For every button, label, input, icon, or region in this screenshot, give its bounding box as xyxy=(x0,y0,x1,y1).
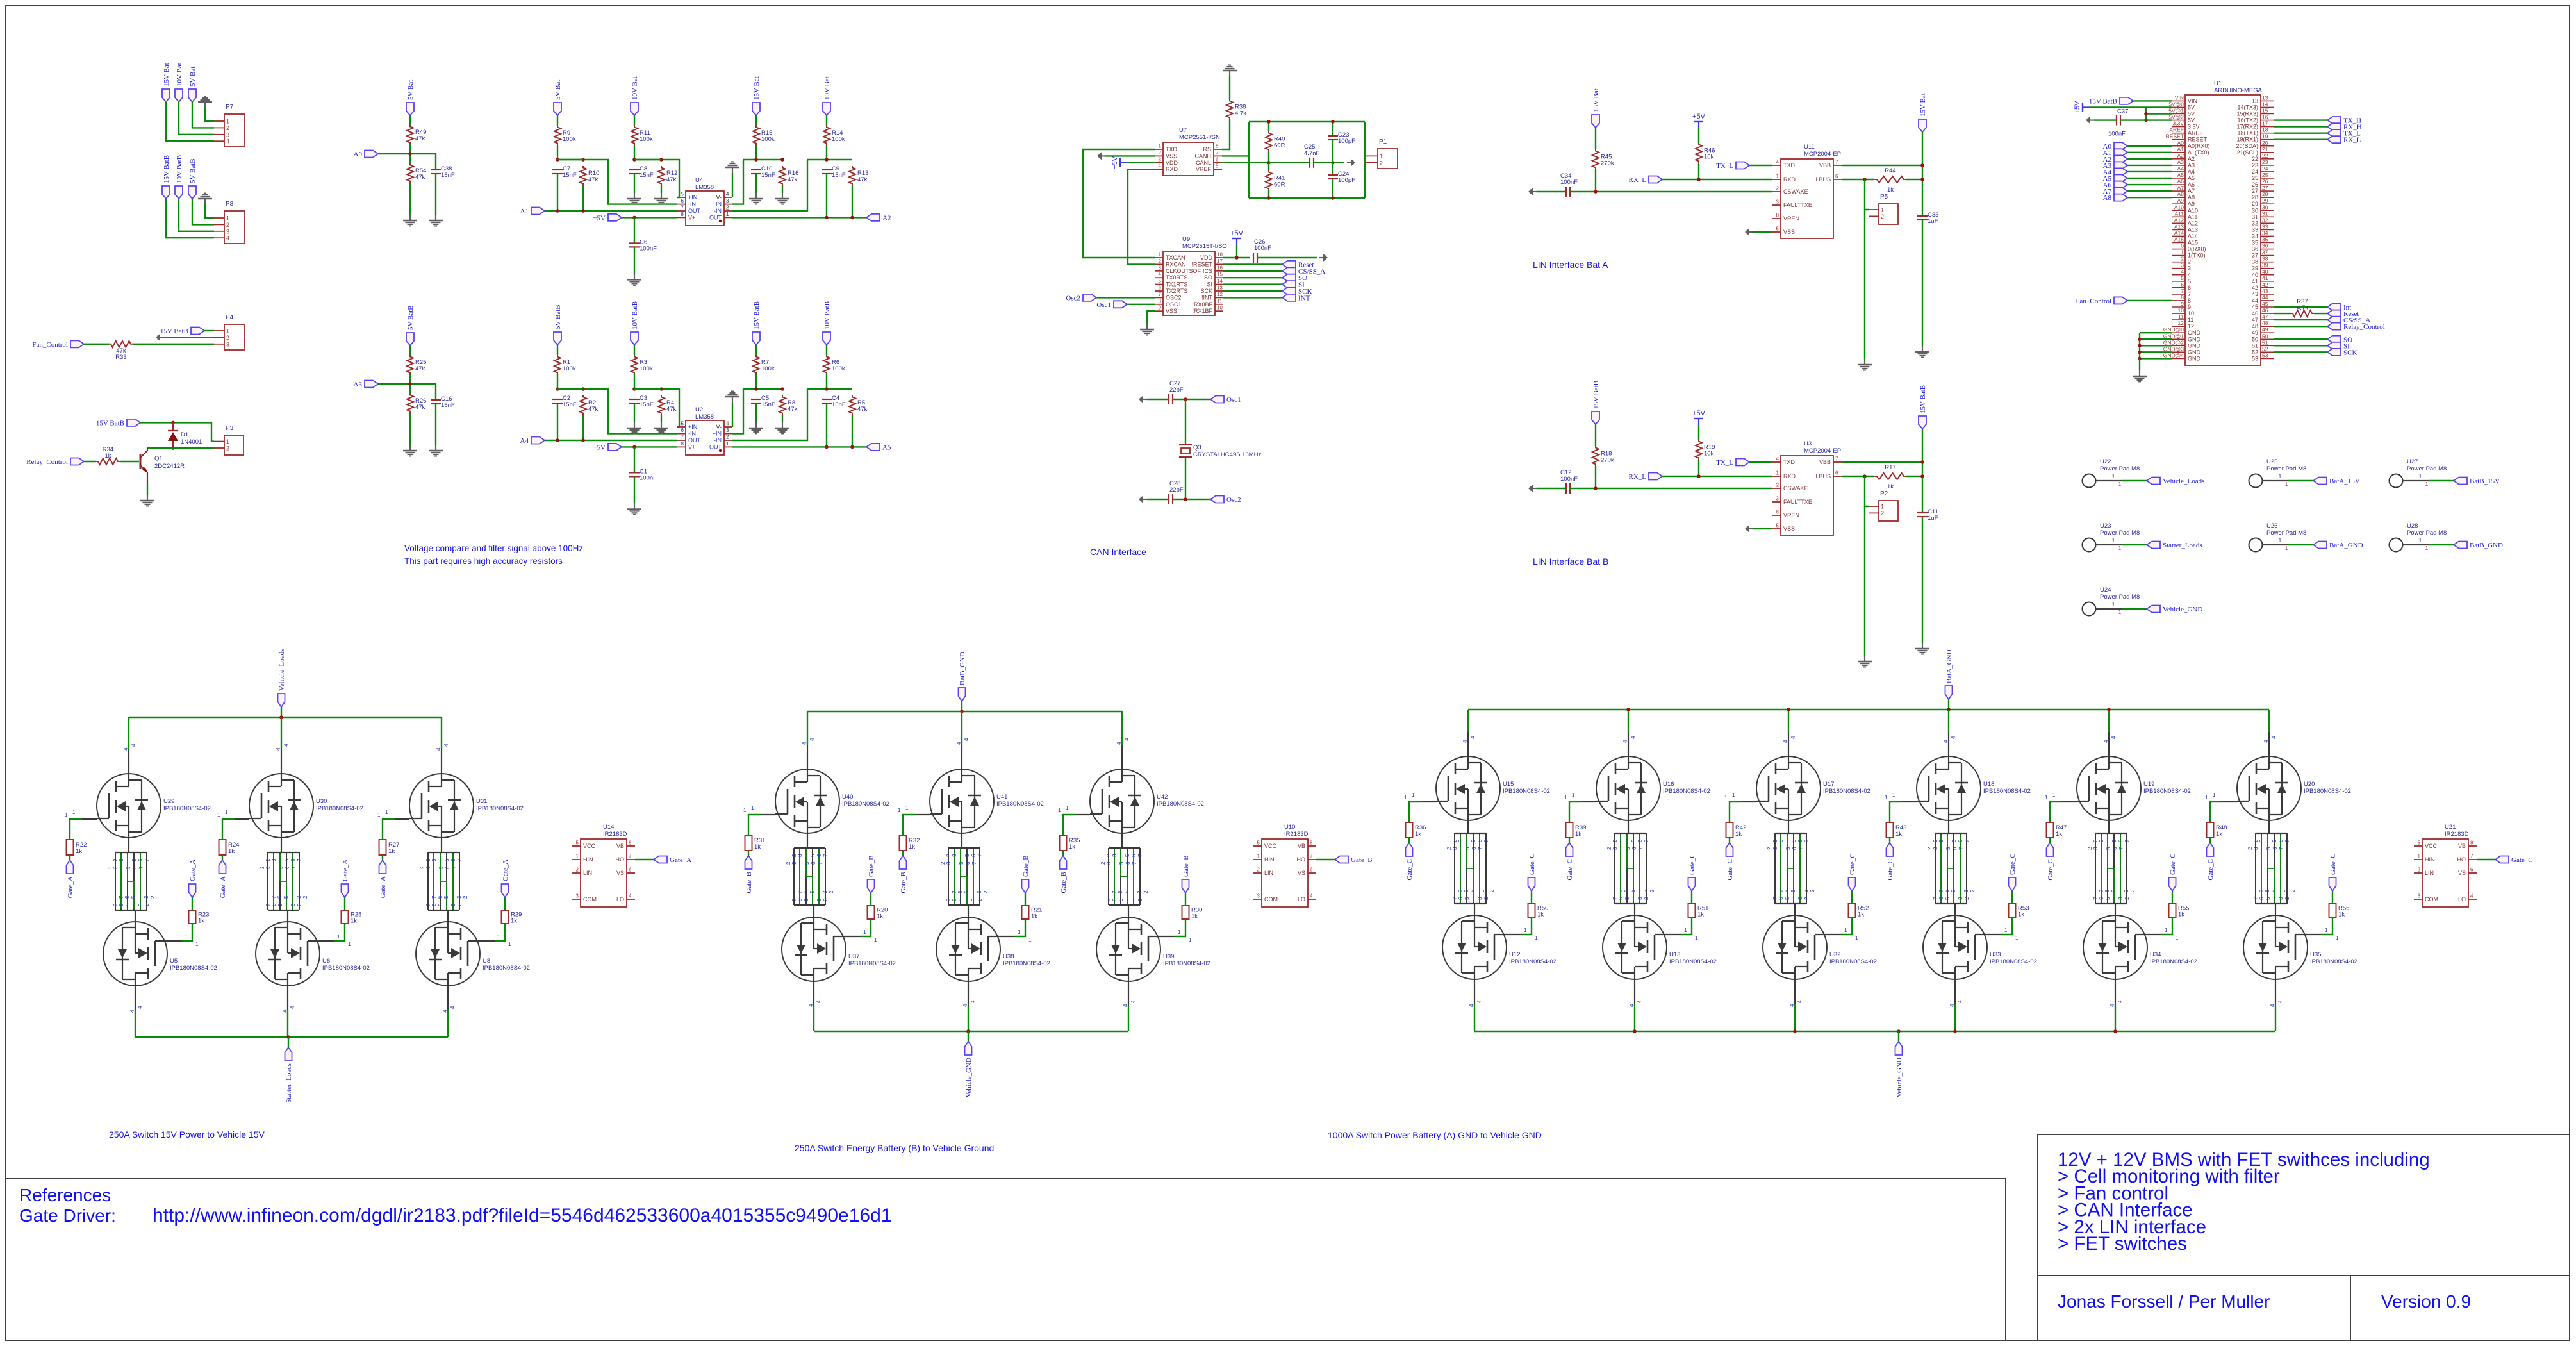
svg-text:A5: A5 xyxy=(882,444,891,451)
IC U11 MCP2004-EP xyxy=(1781,159,1833,238)
svg-text:1k: 1k xyxy=(2056,831,2062,838)
svg-text:6: 6 xyxy=(1159,285,1162,291)
wire xyxy=(1906,476,1922,477)
svg-text:6: 6 xyxy=(1112,898,1118,901)
resistor R44 xyxy=(1874,176,1906,183)
power pad U22 xyxy=(2083,474,2096,488)
svg-text:MCP2515T-I/SO: MCP2515T-I/SO xyxy=(1182,243,1227,250)
svg-text:4: 4 xyxy=(956,742,962,745)
node BatA_15V xyxy=(2313,478,2327,485)
wire HO xyxy=(1316,859,1335,860)
svg-text:8: 8 xyxy=(2181,294,2184,301)
svg-text:1: 1 xyxy=(1776,174,1779,179)
svg-text:33: 33 xyxy=(2262,223,2268,229)
svg-text:Gate_C: Gate_C xyxy=(1566,859,1574,881)
svg-text:+IN: +IN xyxy=(713,201,722,208)
svg-text:7: 7 xyxy=(2124,839,2130,842)
svg-text:MCP2004-EP: MCP2004-EP xyxy=(1804,151,1841,158)
wire xyxy=(281,707,282,717)
svg-text:7: 7 xyxy=(1933,897,1938,900)
wire xyxy=(1332,122,1333,136)
wire xyxy=(782,185,783,193)
svg-text:Power Pad M8: Power Pad M8 xyxy=(2100,529,2140,536)
svg-text:A5: A5 xyxy=(2188,175,2195,181)
svg-text:3: 3 xyxy=(1618,839,1624,842)
svg-text:9: 9 xyxy=(2188,304,2191,310)
svg-text:1: 1 xyxy=(1881,207,1884,213)
svg-text:1: 1 xyxy=(726,212,729,217)
svg-text:5: 5 xyxy=(1951,889,1956,892)
node SCK xyxy=(1282,288,1296,295)
svg-text:A13: A13 xyxy=(2188,226,2198,233)
svg-text:2: 2 xyxy=(2290,889,2296,892)
node Reset xyxy=(2327,310,2341,317)
ground xyxy=(661,193,662,199)
svg-text:A9: A9 xyxy=(2177,197,2184,204)
svg-text:GND: GND xyxy=(2188,349,2201,355)
svg-text:15nF: 15nF xyxy=(832,401,846,408)
resistor R39 xyxy=(1566,822,1573,838)
svg-text:IPB180N08S4-02: IPB180N08S4-02 xyxy=(1983,788,2031,795)
svg-text:45: 45 xyxy=(2252,304,2258,310)
svg-text:250A Switch Energy Battery (B): 250A Switch Energy Battery (B) to Vehicl… xyxy=(795,1143,994,1153)
svg-text:2: 2 xyxy=(2418,867,2421,873)
svg-text:U14: U14 xyxy=(603,824,614,831)
chassis arrow U7-VSS xyxy=(1101,155,1105,156)
svg-text:LIN Interface Bat B: LIN Interface Bat B xyxy=(1533,556,1608,567)
svg-text:5: 5 xyxy=(1125,854,1130,857)
svg-text:1k: 1k xyxy=(909,843,915,851)
svg-text:13: 13 xyxy=(2252,97,2258,104)
svg-text:A10: A10 xyxy=(2174,204,2184,210)
FET bank B (250A BatB): bottom rail xyxy=(814,1031,1128,1032)
references box xyxy=(6,1179,2006,1340)
svg-text:7: 7 xyxy=(1958,847,1964,850)
svg-text:5: 5 xyxy=(1159,278,1162,284)
node Gate_A xyxy=(67,860,74,874)
wire xyxy=(557,388,583,390)
wire xyxy=(2314,313,2327,314)
svg-text:2: 2 xyxy=(2087,847,2093,850)
svg-text:1: 1 xyxy=(2118,545,2122,551)
svg-text:Q1: Q1 xyxy=(154,455,163,462)
svg-text:5: 5 xyxy=(681,192,684,197)
svg-text:35: 35 xyxy=(2252,240,2258,246)
svg-text:1k: 1k xyxy=(1697,911,1704,918)
node SI xyxy=(1282,281,1296,288)
wire xyxy=(826,115,827,126)
wire xyxy=(2122,480,2147,481)
svg-text:A7: A7 xyxy=(2188,188,2195,194)
svg-text:43: 43 xyxy=(2262,288,2268,294)
ground xyxy=(435,215,436,220)
svg-text:5: 5 xyxy=(284,858,290,861)
svg-text:U40: U40 xyxy=(842,793,853,801)
parallel source/drain pins xyxy=(2095,833,2127,834)
node BatB_GND xyxy=(2454,542,2467,549)
op-amp U4 LM358 xyxy=(686,191,724,226)
capacitor C28 xyxy=(1168,494,1169,504)
svg-text:A7: A7 xyxy=(2177,185,2184,191)
svg-text:P4: P4 xyxy=(226,314,234,321)
svg-text:5: 5 xyxy=(277,903,283,906)
node Gate_B xyxy=(745,856,752,869)
node Gate_C xyxy=(2169,877,2176,891)
wire xyxy=(743,388,782,390)
svg-text:TX0RTS: TX0RTS xyxy=(1166,274,1187,281)
svg-text:5: 5 xyxy=(804,861,810,865)
capacitor C9 xyxy=(822,169,832,170)
svg-text:100pF: 100pF xyxy=(1338,138,1355,145)
parallel source/drain pins xyxy=(115,852,147,853)
svg-text:5: 5 xyxy=(959,861,964,865)
wire gate xyxy=(495,924,505,941)
svg-text:3: 3 xyxy=(977,890,982,893)
svg-text:3: 3 xyxy=(2181,262,2184,269)
resistor R1 xyxy=(554,355,561,374)
svg-text:6: 6 xyxy=(1310,867,1313,873)
resistor R16 xyxy=(779,166,786,185)
svg-text:RXD: RXD xyxy=(1783,473,1796,479)
svg-text:5: 5 xyxy=(810,854,816,857)
svg-text:A1: A1 xyxy=(520,208,529,215)
svg-text:6: 6 xyxy=(437,895,443,899)
ground U9 xyxy=(1146,324,1148,329)
capacitor C8 xyxy=(629,169,640,170)
resistor R28 xyxy=(342,910,349,924)
svg-text:A0: A0 xyxy=(2177,140,2184,146)
resistor R48 xyxy=(2207,822,2214,838)
svg-text:References: References xyxy=(19,1185,111,1205)
svg-text:1: 1 xyxy=(2118,610,2122,615)
capacitor C2 xyxy=(552,399,563,400)
wire LBUS xyxy=(1842,476,1874,477)
svg-text:Gate_C: Gate_C xyxy=(1849,853,1856,875)
svg-text:1uF: 1uF xyxy=(1928,515,1938,522)
wire xyxy=(732,389,807,440)
svg-text:MCP2551-I/SN: MCP2551-I/SN xyxy=(1179,134,1220,141)
svg-text:6: 6 xyxy=(1792,847,1797,850)
svg-text:Gate_C: Gate_C xyxy=(2169,853,2177,875)
capacitor C1 xyxy=(629,472,640,473)
svg-text:4: 4 xyxy=(1776,456,1779,462)
svg-text:CSWAKE: CSWAKE xyxy=(1783,485,1808,492)
svg-text:7: 7 xyxy=(681,205,684,211)
wire xyxy=(2127,158,2172,160)
svg-text:HO: HO xyxy=(616,856,625,863)
wire VSS xyxy=(1753,231,1772,233)
svg-text:Vehicle_GND: Vehicle_GND xyxy=(2163,606,2202,613)
svg-text:IPB180N08S4-02: IPB180N08S4-02 xyxy=(1163,960,1210,967)
svg-text:1k: 1k xyxy=(1858,911,1864,918)
wire VBB xyxy=(1842,461,1922,463)
svg-text:7: 7 xyxy=(1106,898,1112,901)
svg-text:3: 3 xyxy=(1137,890,1143,893)
svg-text:53: 53 xyxy=(2252,355,2258,361)
svg-text:1: 1 xyxy=(2181,249,2184,256)
node Gate_B xyxy=(1022,879,1029,893)
transistor U13 (lower FET) xyxy=(1603,915,1667,979)
node Osc2 xyxy=(1083,294,1096,301)
wire gate xyxy=(2322,917,2332,935)
wire xyxy=(2127,178,2172,179)
wire gate xyxy=(70,819,82,840)
svg-text:Version 0.9: Version 0.9 xyxy=(2381,1292,2471,1311)
svg-text:INT: INT xyxy=(1298,294,1310,302)
svg-text:1: 1 xyxy=(1724,795,1728,801)
svg-text:1k: 1k xyxy=(1031,913,1037,920)
svg-text:1: 1 xyxy=(226,438,229,445)
svg-text:BatB_15V: BatB_15V xyxy=(2470,478,2500,485)
svg-text:5: 5 xyxy=(438,903,443,906)
svg-text:Power Pad M8: Power Pad M8 xyxy=(2100,465,2140,472)
svg-text:V+: V+ xyxy=(688,444,695,450)
wire source xyxy=(287,986,288,1010)
svg-text:34: 34 xyxy=(2252,233,2258,239)
svg-text:1: 1 xyxy=(1524,927,1527,933)
wire xyxy=(661,185,662,193)
capacitor C12 xyxy=(1565,483,1567,494)
svg-text:TX2RTS: TX2RTS xyxy=(1166,288,1187,294)
wire gate xyxy=(2162,917,2172,935)
wire xyxy=(755,115,757,126)
svg-text:1N4001: 1N4001 xyxy=(181,438,202,445)
diode D1 1N4001 xyxy=(172,422,174,431)
resistor R25 xyxy=(407,355,413,374)
svg-text:1: 1 xyxy=(195,942,199,947)
svg-text:7: 7 xyxy=(1835,456,1838,462)
wire xyxy=(2332,891,2333,904)
svg-text:15V BatB: 15V BatB xyxy=(96,419,124,427)
svg-text:13: 13 xyxy=(2262,94,2268,101)
svg-text:2: 2 xyxy=(2130,889,2136,892)
svg-text:Gate_B: Gate_B xyxy=(900,872,907,893)
svg-text:BatB_GND: BatB_GND xyxy=(2470,542,2503,549)
svg-text:41: 41 xyxy=(2252,278,2258,285)
svg-text:7: 7 xyxy=(265,903,271,906)
svg-text:1: 1 xyxy=(1178,929,1181,935)
wire drain xyxy=(1467,710,1469,732)
node A5 xyxy=(2114,175,2127,182)
svg-text:7: 7 xyxy=(1835,160,1838,165)
parallel source/drain pins xyxy=(1775,833,1806,834)
svg-text:2: 2 xyxy=(1452,839,1458,842)
svg-text:4: 4 xyxy=(1476,1000,1482,1003)
wire xyxy=(2145,107,2147,120)
svg-text:4: 4 xyxy=(1159,163,1162,169)
svg-text:10V Bat: 10V Bat xyxy=(631,76,639,100)
node Vehicle_GND xyxy=(1895,1042,1903,1055)
wire xyxy=(222,855,223,860)
ground C33 xyxy=(1922,346,1923,352)
capacitor C4 xyxy=(822,399,832,400)
wire xyxy=(755,145,757,160)
svg-text:27: 27 xyxy=(2252,188,2258,194)
svg-text:Osc2: Osc2 xyxy=(1226,496,1241,504)
wire xyxy=(1662,179,1772,180)
svg-text:RX_L: RX_L xyxy=(2343,137,2361,144)
wire drain xyxy=(2108,710,2110,732)
wire xyxy=(1864,210,1865,359)
svg-text:SO: SO xyxy=(1204,274,1212,281)
svg-text:U16: U16 xyxy=(1663,781,1674,788)
svg-text:22pF: 22pF xyxy=(1169,486,1184,494)
ground xyxy=(634,274,635,279)
svg-text:4: 4 xyxy=(123,747,129,751)
wire xyxy=(2274,138,2327,140)
svg-text:4: 4 xyxy=(1951,736,1956,739)
node Gate_C xyxy=(1406,843,1413,856)
resistor R3 xyxy=(631,355,638,374)
node A3 xyxy=(2114,162,2127,169)
svg-text:250A Switch 15V Power to Vehic: 250A Switch 15V Power to Vehicle 15V xyxy=(109,1129,265,1140)
svg-text:A0(RX0): A0(RX0) xyxy=(2188,143,2210,149)
wire xyxy=(179,102,214,135)
svg-text:U33: U33 xyxy=(1990,951,2001,958)
svg-text:1: 1 xyxy=(65,812,68,818)
node BatA_GND xyxy=(1945,686,1953,699)
wire xyxy=(2127,197,2172,198)
svg-text:2: 2 xyxy=(1772,839,1778,842)
svg-text:38: 38 xyxy=(2252,259,2258,265)
svg-text:1: 1 xyxy=(2425,481,2429,487)
svg-text:U32: U32 xyxy=(1829,951,1840,958)
svg-text:2: 2 xyxy=(2181,256,2184,262)
svg-text:4: 4 xyxy=(276,747,281,751)
svg-text:2: 2 xyxy=(425,858,431,861)
svg-text:6: 6 xyxy=(2272,847,2278,850)
wire source xyxy=(1954,979,1956,1004)
svg-text:2: 2 xyxy=(302,895,308,899)
svg-text:IPB180N08S4-02: IPB180N08S4-02 xyxy=(1003,960,1050,967)
wire xyxy=(1698,128,1699,143)
svg-text:5: 5 xyxy=(131,858,137,861)
node Gate_C xyxy=(1566,843,1573,856)
node Gate_A xyxy=(379,860,386,874)
svg-text:LIN: LIN xyxy=(583,870,592,876)
node Gate_A xyxy=(502,884,509,897)
svg-text:4: 4 xyxy=(1943,740,1949,743)
svg-text:4: 4 xyxy=(2111,736,2117,739)
wire xyxy=(634,174,635,193)
svg-text:4: 4 xyxy=(2277,1000,2283,1003)
svg-text:5: 5 xyxy=(958,898,964,901)
svg-text:15nF: 15nF xyxy=(832,172,846,179)
svg-text:2: 2 xyxy=(791,854,797,857)
svg-text:A6: A6 xyxy=(2188,181,2195,188)
wire xyxy=(826,145,827,160)
svg-text:HIN: HIN xyxy=(583,856,593,863)
wire gate xyxy=(748,815,761,835)
svg-text:MCP2004-EP: MCP2004-EP xyxy=(1804,447,1841,454)
svg-text:44: 44 xyxy=(2262,294,2268,301)
resistor R24 xyxy=(219,840,226,855)
ground xyxy=(1229,71,1230,76)
wire xyxy=(128,838,129,852)
svg-text:2: 2 xyxy=(726,205,729,211)
svg-text:1k: 1k xyxy=(877,913,883,920)
wire xyxy=(1948,820,1949,833)
node Relay_Control xyxy=(70,458,84,465)
resistor R4 xyxy=(658,395,665,415)
transistor U8 (lower FET) xyxy=(416,922,480,986)
svg-text:!CS: !CS xyxy=(1203,268,1212,274)
ground (chassis up) xyxy=(204,102,206,108)
svg-text:IPB180N08S4-02: IPB180N08S4-02 xyxy=(1663,788,1710,795)
svg-text:1(TX0): 1(TX0) xyxy=(2188,253,2206,259)
resistor R43 xyxy=(1887,822,1894,838)
svg-text:4: 4 xyxy=(1790,736,1796,739)
svg-text:TXD: TXD xyxy=(1166,146,1178,153)
wire xyxy=(1698,163,1699,179)
wire xyxy=(204,330,214,331)
wire xyxy=(2108,820,2110,833)
svg-text:6: 6 xyxy=(2181,281,2184,288)
svg-text:TX_L: TX_L xyxy=(1716,459,1733,467)
svg-text:1: 1 xyxy=(2279,473,2282,479)
node Osc2 xyxy=(1210,496,1224,503)
svg-text:6: 6 xyxy=(132,866,138,869)
svg-text:1k: 1k xyxy=(198,918,204,925)
svg-text:RXD: RXD xyxy=(1166,166,1178,172)
wire xyxy=(2274,306,2327,308)
svg-text:8: 8 xyxy=(1159,298,1162,304)
svg-text:47k: 47k xyxy=(588,406,599,413)
wire xyxy=(344,897,345,910)
resistor R14 xyxy=(823,126,830,145)
ground xyxy=(634,503,635,509)
svg-text:4: 4 xyxy=(2470,893,2473,899)
svg-text:7: 7 xyxy=(1132,861,1137,865)
svg-text:28: 28 xyxy=(2262,191,2268,197)
parallel source/drain pins xyxy=(948,847,980,849)
svg-text:Gate_C: Gate_C xyxy=(2329,853,2337,875)
svg-text:1: 1 xyxy=(874,937,877,943)
node Gate_C xyxy=(2009,877,2016,891)
svg-text:6: 6 xyxy=(290,858,296,861)
wire source xyxy=(1474,979,1475,1004)
wire xyxy=(1223,263,1282,265)
wire CAN box xyxy=(1248,122,1250,198)
svg-text:A4: A4 xyxy=(520,437,529,445)
power pad U28 xyxy=(2390,538,2403,552)
svg-text:-IN: -IN xyxy=(688,431,696,437)
resistor R8 xyxy=(779,395,786,415)
svg-text:1k: 1k xyxy=(228,848,235,855)
ground (up) xyxy=(732,167,733,173)
wire xyxy=(2209,838,2211,843)
svg-text:8: 8 xyxy=(681,212,684,217)
transistor U35 (lower FET) xyxy=(2243,915,2308,979)
svg-text:3: 3 xyxy=(271,858,277,861)
wire VSS xyxy=(1147,311,1155,324)
svg-text:6: 6 xyxy=(1631,847,1637,850)
resistor R17 xyxy=(1874,473,1906,479)
svg-text:6: 6 xyxy=(816,854,822,857)
svg-text:3: 3 xyxy=(1612,847,1618,850)
svg-text:+5V: +5V xyxy=(2074,101,2081,114)
capacitor C7 xyxy=(552,169,563,170)
resistor R31 xyxy=(745,835,752,851)
svg-text:VBB: VBB xyxy=(1819,162,1831,169)
wire xyxy=(826,345,827,355)
svg-text:5: 5 xyxy=(809,890,815,893)
capacitor C10 xyxy=(751,169,761,170)
svg-text:U17: U17 xyxy=(1823,781,1834,788)
svg-text:5: 5 xyxy=(444,858,450,861)
svg-text:4: 4 xyxy=(2271,736,2277,739)
wire xyxy=(1729,838,1730,843)
